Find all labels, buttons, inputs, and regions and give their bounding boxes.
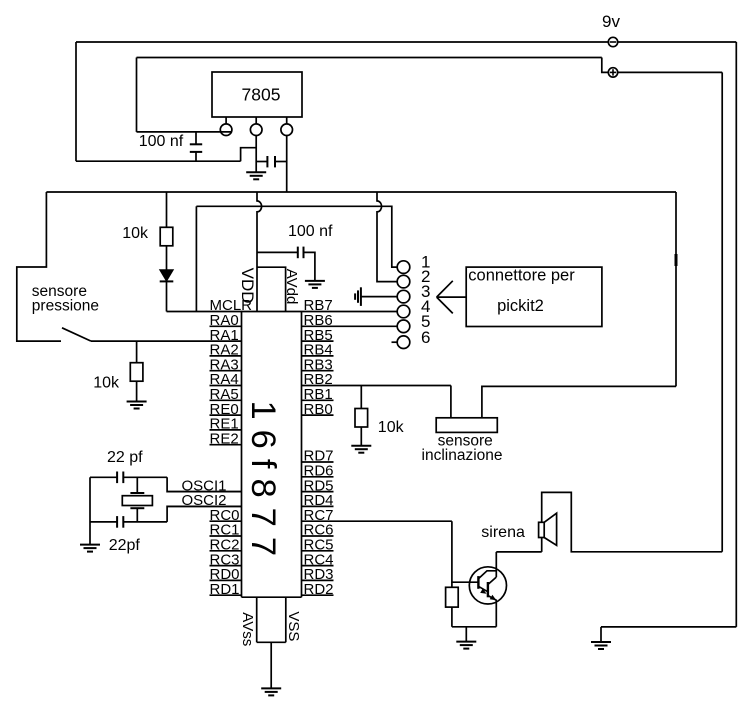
pin 7805 in stub [225, 117, 227, 124]
ground emitter [456, 627, 476, 649]
wire 9v minus top left [76, 41, 608, 43]
pin label RB1 [302, 386, 334, 403]
resistor 10k pulldown [130, 363, 143, 382]
connector pin 4 circle [397, 305, 410, 318]
transistor Q2 collector [488, 577, 496, 584]
wire base resistor bottom [451, 607, 453, 627]
wire diode to MCLR [166, 281, 168, 311]
label 10k pulldown [93, 375, 120, 392]
wire 22pf top right [123, 476, 167, 478]
pin label RB5 [302, 327, 334, 344]
wire switch to RA1 [91, 340, 242, 342]
wire 5v to tilt sensor [482, 386, 676, 417]
wire 10k rb2 to gnd [360, 427, 362, 446]
box avss vss [257, 597, 286, 642]
ground vss [261, 688, 281, 695]
capacitor 100nf input bottom wire [195, 152, 197, 161]
pin label RD2 [302, 581, 334, 598]
wire 9v plus right [618, 71, 723, 73]
label AVss [239, 612, 256, 646]
wire 22pf bottom right [123, 521, 167, 523]
pin label RB6 [302, 312, 398, 329]
wire outer bottom [76, 160, 241, 162]
arrow to connector [437, 281, 467, 314]
label pin 3 [421, 282, 430, 301]
label 100 nf decoupling [288, 223, 333, 240]
terminal 9v minus [608, 37, 617, 46]
connector pin 3 circle [397, 290, 410, 303]
wire rc7 to base [452, 521, 479, 582]
wire inner left vertical [136, 58, 138, 132]
svg-text:22pf: 22pf [109, 537, 141, 554]
svg-text:100 nf: 100 nf [139, 133, 184, 150]
pin label RA4 [210, 371, 242, 388]
wire vdd vertical [257, 192, 262, 312]
wire vss to gnd [270, 642, 272, 688]
pin label RB0 [302, 401, 334, 418]
wire base resistor top [451, 582, 453, 587]
wire pickit pin6 stub [392, 341, 398, 343]
wire osc1 corner [167, 477, 241, 491]
svg-text:16f877: 16f877 [244, 401, 282, 567]
svg-text:AVss: AVss [239, 612, 256, 646]
crystal X1 [122, 477, 152, 522]
wire pullup to diode [166, 246, 168, 270]
wire 9v plus to sirena [542, 492, 723, 551]
wire 7805 out pin down [286, 136, 288, 193]
speaker box [539, 522, 545, 552]
pin label RA3 [210, 356, 242, 373]
pin label RB3 [302, 356, 334, 373]
wire 10k pulldown rb2 tap [360, 386, 362, 409]
pin label MCLR [210, 297, 253, 314]
svg-text:sirena: sirena [481, 524, 525, 541]
svg-text:AVdd: AVdd [283, 269, 300, 305]
pin label RD6 [302, 463, 334, 480]
wire mclr net vertical [195, 206, 197, 311]
svg-text:7805: 7805 [242, 85, 281, 105]
pin label RD1 [210, 581, 242, 598]
label VSS [285, 611, 302, 641]
wire mclr to pickit pin1 [196, 206, 397, 267]
regulator 7805 box [212, 72, 302, 117]
label 22pf bottom [109, 537, 141, 554]
terminal 9v plus [608, 68, 617, 77]
connector pin 1 circle [397, 261, 410, 274]
wire tilt left terminal [450, 386, 452, 418]
label sensore pressione [32, 283, 99, 315]
pin label RC0 [210, 507, 242, 524]
wire cap to gnd [304, 252, 315, 281]
pin label RE2 [210, 430, 242, 447]
speaker cone [544, 513, 556, 545]
pin label RD7 [302, 448, 334, 465]
wire 9v plus right vertical [721, 72, 723, 551]
wire 5v rail [46, 191, 676, 193]
diode D1 [160, 270, 174, 282]
label pin 1 [421, 253, 430, 272]
label 100 nf input cap [139, 133, 184, 150]
wire gnd to cap [256, 161, 266, 163]
svg-text:22 pf: 22 pf [107, 449, 143, 466]
pin label RA2 [210, 342, 242, 359]
wire gnd to pickit pin3 [361, 296, 397, 298]
capacitor 100nf input plates [190, 144, 202, 152]
transistor Q1 emitter [478, 586, 488, 594]
wire 7805 input [137, 131, 232, 133]
capacitor output plates [267, 156, 275, 167]
transistor Q1 base bar [477, 576, 479, 589]
label sirena [481, 524, 525, 541]
pin 7805 in circle [220, 124, 232, 136]
pin label RD3 [302, 566, 334, 583]
svg-text:9v: 9v [602, 12, 620, 31]
resistor 10k rb2 [355, 409, 368, 428]
wire emitter bottom [452, 626, 496, 628]
wire 22pf bottom left [90, 521, 117, 523]
pin label RC5 [302, 537, 334, 554]
pin label RC2 [210, 537, 242, 554]
pin label RB2 [302, 371, 451, 388]
pin label RC7 [302, 507, 452, 524]
svg-text:inclinazione: inclinazione [422, 447, 503, 464]
wire collector to speaker [496, 551, 541, 553]
label AVdd [283, 269, 300, 305]
transistor Q1 collector [478, 571, 496, 579]
capacitor 100nf input top wire [195, 132, 197, 144]
pin label OSCI1 [167, 477, 241, 494]
svg-text:10k: 10k [93, 375, 120, 392]
ground battery minus [591, 627, 611, 649]
switch pressure blade [62, 328, 91, 341]
pin label RA5 [210, 386, 242, 403]
label sensore inclinazione [422, 432, 503, 464]
wire 10k pulldown to gnd [136, 381, 138, 401]
pin label RA1 [210, 327, 239, 344]
pin label RE1 [210, 416, 242, 433]
wire vdd to cap [257, 251, 297, 253]
pin 7805 out circle [281, 124, 293, 136]
pin 7805 gnd stub [255, 117, 257, 124]
box sensore inclinazione [436, 418, 497, 433]
label 10k rb2 [378, 419, 405, 436]
svg-text:pressione: pressione [32, 298, 99, 315]
ground 7805 [246, 172, 266, 179]
wire 5v to pickit pin2 [377, 192, 397, 282]
label pin 5 [421, 312, 430, 331]
ic body 16f877 [242, 312, 302, 598]
label pickit2 [497, 297, 544, 315]
pin label RB7 [304, 297, 333, 314]
svg-text:pickit2: pickit2 [497, 297, 544, 315]
label pin 4 [421, 297, 430, 316]
ground decoupling cap [305, 281, 325, 288]
wire left side sensore [17, 192, 61, 341]
label connettore per [468, 267, 575, 285]
wire 7805 gnd pin down [255, 136, 257, 173]
wire outer bottom jog [241, 148, 257, 162]
wire osc2 corner [167, 506, 241, 522]
label 7805 [242, 85, 281, 105]
pin label RE0 [210, 401, 242, 418]
pin label RD4 [302, 492, 334, 509]
pin label RA0 [210, 312, 242, 329]
transistor Q2 base bar [487, 582, 489, 597]
label pin 6 [421, 328, 430, 347]
transistor Q2 emitter [488, 595, 496, 627]
connector pin 6 circle [397, 336, 410, 349]
ground crystal [80, 545, 100, 552]
label 22 pf top [107, 449, 143, 466]
svg-text:6: 6 [421, 328, 430, 347]
wire 9v minus top right [618, 41, 737, 43]
wire 9v minus right vertical [735, 42, 737, 627]
ground pickit pin3 [355, 287, 361, 306]
pin label RD5 [302, 477, 334, 494]
wire 10k pulldown tap [136, 341, 138, 363]
label 10k pullup [122, 225, 149, 242]
label 9v battery [602, 12, 620, 31]
ground 10k rb2 [351, 446, 371, 453]
pin label RD0 [210, 566, 242, 583]
pin label RC1 [210, 522, 242, 539]
svg-text:connettore per: connettore per [468, 267, 575, 285]
capacitor 22pf bottom plates [117, 516, 123, 528]
wire collector vertical [495, 552, 497, 577]
label 16f877 [244, 401, 282, 567]
ground 10k pulldown [127, 402, 147, 409]
box connettore pickit2 [466, 267, 602, 326]
wire avdd jog [257, 267, 286, 311]
pin label OSCI2 [167, 492, 241, 509]
pin label RB4 [302, 342, 334, 359]
wire outer left vertical [75, 42, 77, 161]
wire 9v minus bottom [601, 626, 736, 628]
resistor base-emitter [446, 587, 459, 607]
connector pin 5 circle [397, 320, 410, 333]
wire 9v plus jog [602, 58, 609, 73]
pin label RC6 [302, 522, 334, 539]
wire 9v plus top [137, 57, 602, 59]
pin label RC3 [210, 551, 242, 568]
wire mclr rb7 row [167, 311, 398, 313]
svg-text:10k: 10k [122, 225, 149, 242]
wire 5v right vertical [675, 192, 677, 386]
svg-text:100 nf: 100 nf [288, 223, 333, 240]
wire cap to out pin [275, 161, 287, 163]
pin 7805 gnd circle [250, 124, 262, 136]
wire 22pf top left [90, 476, 117, 478]
svg-text:VSS: VSS [285, 611, 302, 641]
transistor Q1 circle [469, 567, 506, 604]
label pin 2 [421, 267, 430, 286]
pin label RC4 [302, 551, 334, 568]
connector pin 2 circle [397, 275, 410, 288]
capacitor 22pf top plates [117, 472, 123, 484]
resistor 10k pullup [160, 227, 173, 246]
label VDD [238, 268, 257, 304]
capacitor 100nf decoupling plates [298, 247, 304, 259]
wire caps left vertical [89, 477, 91, 544]
pin 7805 out stub [286, 117, 288, 124]
wire 10k pullup tap [166, 192, 168, 227]
svg-text:10k: 10k [378, 419, 405, 436]
